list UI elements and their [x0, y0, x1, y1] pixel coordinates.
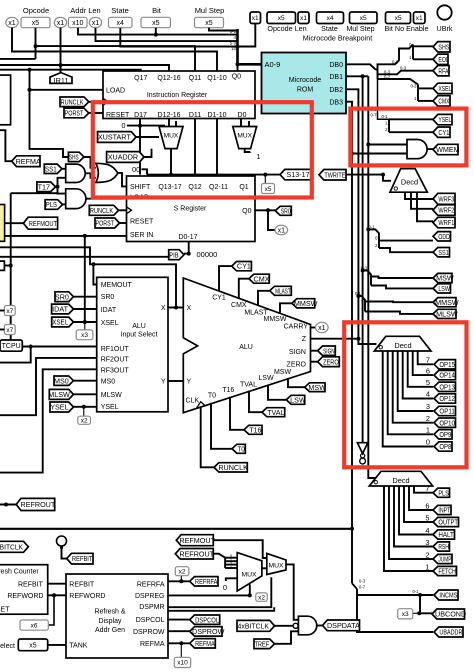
width label x6: [20, 620, 48, 630]
svg-text:SHIFT: SHIFT: [130, 184, 151, 191]
svg-text:Q1: Q1: [239, 184, 248, 191]
junction X wire: [174, 306, 178, 310]
splitter XSEL/CMX spine: [417, 85, 419, 101]
tag FETCH: [433, 566, 457, 575]
svg-text:x7: x7: [6, 308, 13, 315]
wire Decd2 out 2 to OP10: [393, 351, 433, 423]
svg-text:0-3: 0-3: [400, 66, 407, 71]
svg-text:INCMS: INCMS: [439, 591, 457, 600]
wire MUX2 out: [286, 564, 298, 619]
wire x5 Opcode bus: [36, 28, 196, 71]
leader x2 label: [83, 407, 85, 416]
svg-text:State: State: [111, 6, 129, 15]
wire const00 to bus: [142, 169, 148, 174]
svg-text:0-7: 0-7: [359, 585, 366, 590]
svg-text:ROM: ROM: [297, 87, 314, 94]
wire CMX to ALU: [239, 279, 249, 299]
svg-text:Q13-17: Q13-17: [158, 184, 181, 191]
svg-text:x5: x5: [278, 15, 285, 22]
wire D17 down: [139, 119, 141, 175]
svg-text:D0: D0: [238, 112, 247, 119]
pin x1 (No Enable bp): [414, 12, 426, 24]
svg-text:Mul Step: Mul Step: [346, 24, 374, 33]
junction x3 UBCOND: [417, 611, 421, 615]
wire MLSW in: [74, 393, 97, 395]
mux XU2: [233, 127, 257, 149]
svg-text:4xBITCLK: 4xBITCLK: [0, 542, 23, 551]
svg-text:x1: x1: [92, 20, 100, 27]
svg-text:A0-9: A0-9: [265, 60, 281, 69]
input pin x1 (Opcode): [6, 17, 18, 27]
instruction register box: [103, 71, 255, 119]
svg-text:RF2OUT: RF2OUT: [101, 357, 130, 364]
svg-text:S Register: S Register: [174, 206, 207, 213]
tag RUNCLK (SREG): [89, 205, 118, 215]
wire MUX2 extra input: [248, 121, 250, 127]
wire bundle to INCMS splitter: [352, 583, 357, 589]
svg-text:REFRFA: REFRFA: [137, 581, 165, 588]
wire to MSW: [371, 277, 433, 279]
wire DB0: [346, 64, 376, 69]
svg-text:Q12-16: Q12-16: [157, 75, 180, 82]
svg-text:YSEL: YSEL: [101, 404, 119, 411]
wire DB0 split up: [376, 45, 414, 70]
wire IDAT in: [74, 308, 97, 310]
wire Q0 out: [255, 209, 275, 211]
svg-text:Decd: Decd: [392, 476, 409, 485]
wire x1 Opcode long bus: [12, 28, 217, 72]
svg-text:4: 4: [426, 390, 430, 399]
wire sp stub4: [225, 567, 237, 569]
svg-text:x1: x1: [57, 20, 65, 27]
svg-text:T17: T17: [38, 182, 50, 191]
svg-text:0-1: 0-1: [381, 114, 388, 119]
wire MMSW to ALU: [280, 303, 292, 313]
wire Decd3 out 6 to INPT: [409, 486, 433, 510]
wire sp stub1: [225, 557, 237, 559]
tag WMEM: [433, 144, 460, 154]
tag REFBIT: [67, 553, 93, 564]
wire CLK tap: [201, 407, 214, 468]
leader x5 label: [264, 175, 266, 184]
svg-text:x1: x1: [8, 20, 16, 27]
tag RFA: [433, 66, 449, 76]
junction bus C on DB1: [361, 74, 365, 78]
wire D11 down: [194, 119, 196, 175]
wire MSW tap: [288, 378, 305, 387]
svg-text:x5: x5: [29, 642, 37, 649]
svg-text:RUNCLK: RUNCLK: [90, 206, 113, 215]
wire RF3OUT: [0, 369, 97, 472]
mux display 1: [237, 553, 262, 591]
svg-text:x2: x2: [258, 594, 265, 601]
wire x5 lower stub: [35, 46, 37, 59]
svg-text:ZERO: ZERO: [287, 362, 307, 369]
wire PORST to IR reset: [89, 112, 103, 114]
input pin x5 (Opcode): [21, 17, 50, 27]
wire DSPREG to MUX1 sel: [249, 584, 251, 595]
svg-text:DB0: DB0: [329, 62, 343, 69]
wire TWRITE to Decd1: [346, 174, 384, 176]
tag ODD: [433, 232, 451, 241]
input pin x1 (Len): [89, 17, 101, 27]
tag DSPCOL: [190, 615, 220, 624]
svg-text:HALT: HALT: [438, 530, 454, 539]
wire Decd2 out 0 to OP8: [383, 351, 433, 447]
wire DSPCOL out: [168, 619, 190, 621]
svg-text:x5: x5: [32, 20, 40, 27]
svg-text:DSPCOL: DSPCOL: [136, 617, 165, 624]
svg-text:UBCOND: UBCOND: [435, 610, 466, 619]
splitter INCMS spine: [357, 589, 433, 632]
wire TVAL tap: [249, 391, 262, 413]
svg-text:x5: x5: [205, 20, 213, 27]
svg-text:2: 2: [425, 551, 429, 560]
wire RUNCLK to SREG clk: [119, 209, 127, 211]
svg-text:SHS: SHS: [69, 153, 79, 162]
tag OP11: [434, 406, 456, 415]
wire MS0 in: [74, 380, 97, 382]
wire DB1: [346, 75, 368, 77]
width label x3: [76, 330, 93, 340]
svg-text:EOI: EOI: [438, 55, 447, 64]
svg-text:1: 1: [426, 426, 430, 435]
wire Decd3 out 2 to JUMP: [389, 486, 433, 559]
wire TCPU to RF1OUT: [22, 346, 96, 348]
wire to XSEL splitter: [378, 79, 419, 85]
svg-text:CMX: CMX: [231, 302, 247, 309]
svg-text:MEMOUT: MEMOUT: [101, 282, 133, 289]
junction const0/D17: [138, 124, 142, 128]
svg-text:Decd: Decd: [394, 341, 411, 350]
svg-text:DSPCOL: DSPCOL: [195, 615, 219, 624]
svg-text:X: X: [187, 305, 192, 312]
tag CMX: [433, 96, 450, 106]
tag UBCOND: [432, 609, 466, 619]
tag OP10: [434, 418, 456, 427]
svg-text:x10: x10: [177, 660, 188, 667]
tag YSEL (AIS): [50, 402, 74, 412]
svg-text:OP10: OP10: [439, 418, 455, 427]
junction Q0 split: [266, 208, 270, 212]
wire Z out: [311, 338, 359, 340]
wire REFWORD to gen: [48, 594, 66, 596]
svg-text:OP12: OP12: [439, 394, 455, 403]
inverter (bundle D): [357, 443, 367, 464]
wire MUX1 to MUX2: [262, 567, 267, 569]
svg-text:x10: x10: [72, 20, 83, 27]
svg-text:REFMA: REFMA: [140, 641, 165, 648]
svg-text:YSEL: YSEL: [438, 115, 451, 124]
junction REFRFA x2: [179, 579, 183, 583]
tag XUADDR: [107, 152, 144, 163]
svg-text:x5: x5: [395, 15, 402, 22]
tag REFMA (gen): [190, 639, 216, 648]
svg-text:SS1: SS1: [438, 248, 449, 257]
wire x1 Addr to IR11: [60, 28, 62, 73]
svg-text:X: X: [161, 305, 166, 312]
wire REFMA left: [0, 130, 12, 161]
wire XUSTART to MUX1: [136, 136, 159, 138]
svg-text:XSEL: XSEL: [101, 320, 119, 327]
wire OR out to SHIFT: [118, 173, 127, 187]
junction XSEL x3: [83, 320, 87, 324]
svg-text:RESET: RESET: [106, 112, 130, 119]
wire Decd1 to WRF1: [417, 192, 433, 221]
svg-text:CY1: CY1: [438, 128, 449, 137]
wire DSPMR out2: [168, 607, 274, 611]
tag WRF3: [433, 193, 455, 204]
svg-text:Addr Gen: Addr Gen: [95, 627, 125, 634]
tag S13-17: [280, 169, 311, 179]
wire Q0 to x1 pin: [268, 210, 275, 230]
svg-text:DSPREG: DSPREG: [135, 593, 165, 600]
svg-text:D11: D11: [189, 112, 201, 119]
svg-text:LSW: LSW: [258, 375, 274, 382]
wire Decd3 out 3 to RSH: [394, 486, 433, 547]
wire Y into ALU: [168, 380, 183, 382]
wire to CMX: [418, 100, 433, 102]
bus left y69.7 to Q17: [0, 70, 141, 71]
tag WRF1: [433, 217, 455, 228]
junction x5 stub: [34, 44, 38, 48]
output pin x1 (CARRY): [316, 322, 329, 332]
svg-text:x1: x1: [300, 15, 307, 22]
wire DSPMR out: [168, 577, 271, 607]
svg-text:5: 5: [425, 514, 429, 523]
wire T0 tap: [211, 403, 232, 449]
wire AND-wmem in1: [368, 144, 407, 146]
bus left y58.9: [0, 58, 36, 60]
svg-text:7: 7: [425, 484, 429, 493]
svg-text:5: 5: [426, 378, 430, 387]
wire REFMOUT to MUX2: [213, 540, 266, 558]
svg-text:0-1: 0-1: [230, 29, 237, 34]
svg-text:x3: x3: [402, 611, 409, 618]
ALU input select box: [97, 277, 168, 412]
wire LOAD from bus: [30, 89, 104, 91]
wire Decd3 out 1 to FETCH: [384, 486, 433, 571]
tag LSW (ALU): [286, 395, 306, 404]
tag OUTPT: [433, 517, 459, 526]
svg-text:x3: x3: [81, 332, 88, 339]
wire gate to DSPDATA: [317, 625, 323, 627]
wire to SHS: [413, 45, 433, 47]
pin x5 (Mul Step bp): [350, 12, 378, 24]
tag T17: [37, 182, 56, 192]
wire to EOI: [413, 58, 433, 60]
wire SS1 to AND1: [62, 168, 66, 170]
svg-text:TCPU: TCPU: [2, 343, 21, 350]
bus left y65 to Q12-16: [0, 65, 169, 71]
refresh counter box: [0, 565, 48, 615]
wire Decd3 out 4 to HALT: [399, 486, 433, 535]
junction DSPREG select: [248, 593, 252, 597]
svg-text:D0-17: D0-17: [178, 234, 197, 241]
svg-text:DSPDATA: DSPDATA: [327, 621, 360, 630]
svg-text:00000: 00000: [197, 250, 218, 259]
svg-text:ALU: ALU: [239, 344, 253, 351]
svg-text:ALU: ALU: [132, 323, 146, 330]
wire DB3 + vertical bus A: [346, 102, 352, 584]
wire Decd2 out 4 to OP12: [403, 351, 433, 399]
pin stem dot: [60, 546, 63, 549]
pin x5 (Opcode bp): [267, 12, 296, 24]
svg-text:0-1: 0-1: [392, 59, 399, 64]
and gate G1: [66, 164, 86, 182]
junction wmem in1: [366, 143, 370, 147]
wire Bit to bus: [155, 28, 157, 35]
tag RUNCLK (ALU): [214, 463, 248, 472]
pin x5 (Bit bp): [386, 12, 411, 24]
junction SERIN branch: [83, 234, 87, 238]
wire Decd2 out 6 to OP14: [413, 351, 433, 375]
svg-text:MLSW: MLSW: [48, 390, 70, 399]
svg-text:Mul Step: Mul Step: [195, 6, 225, 15]
svg-text:Addr Len: Addr Len: [70, 6, 100, 15]
leader x6: [48, 595, 54, 625]
svg-text:x5: x5: [265, 186, 272, 193]
svg-text:Bit: Bit: [152, 6, 162, 15]
svg-text:0-1: 0-1: [355, 291, 362, 296]
wire Decd2 out 3 to OP11: [398, 351, 433, 411]
svg-text:MUX: MUX: [268, 563, 284, 570]
wire TREF to gate: [275, 631, 299, 644]
svg-text:YSEL: YSEL: [50, 403, 68, 412]
wire ZERO out: [311, 361, 318, 363]
svg-text:D12-16: D12-16: [158, 112, 181, 119]
wire MUX1 extra input: [175, 121, 177, 127]
splitter YSEL/CY1 spine: [388, 119, 390, 132]
svg-text:RF3OUT: RF3OUT: [101, 368, 130, 375]
wire Decd2 out 5 to OP13: [408, 351, 433, 387]
width label x2: [78, 416, 91, 424]
wire x5 to TANK: [48, 644, 66, 646]
svg-text:5-9: 5-9: [230, 41, 237, 46]
input pin x5 (Bit): [141, 17, 171, 27]
svg-text:MUX: MUX: [164, 133, 179, 140]
svg-text:T0: T0: [237, 444, 244, 453]
svg-text:T16: T16: [249, 425, 261, 434]
tag MS0: [54, 376, 74, 385]
tag PORST (IR): [64, 108, 89, 118]
wire X into ALU: [168, 307, 183, 309]
wire x7b stub: [0, 329, 4, 331]
and gate G2: [66, 189, 86, 209]
svg-text:6: 6: [426, 366, 430, 375]
refresh display addr gen box: [66, 574, 168, 658]
svg-text:Microcode Breakpoint: Microcode Breakpoint: [303, 33, 373, 42]
tag REFRFA: [190, 577, 218, 586]
junction REFMA x10: [179, 641, 183, 645]
svg-text:RF1OUT: RF1OUT: [101, 346, 130, 353]
svg-text:DSPMR: DSPMR: [139, 604, 164, 611]
svg-text:x1: x1: [416, 15, 423, 22]
wire to CY1: [389, 131, 433, 133]
junction RF1 branch: [29, 345, 33, 349]
tag CY1: [433, 127, 450, 137]
svg-text:MMSW: MMSW: [264, 316, 287, 323]
tag MSW (ALU): [305, 383, 326, 392]
wire to LSW: [371, 286, 433, 289]
wire x10 Addr to bus: [78, 28, 238, 35]
leader x3 (UBCOND): [413, 612, 420, 614]
wire MUX1 out to bus: [170, 149, 172, 175]
svg-text:Microcode: Microcode: [289, 77, 321, 84]
wire DSPROW out: [168, 630, 190, 632]
svg-text:SS1: SS1: [45, 164, 57, 173]
wire T17 to AND2: [58, 187, 66, 194]
wire to ODD: [379, 240, 433, 242]
tag SR0 (from Q0): [275, 206, 291, 215]
wire CY1 to ALU: [219, 266, 232, 291]
svg-text:WRF1: WRF1: [438, 218, 454, 227]
svg-text:TVAL: TVAL: [240, 381, 257, 388]
junction ODD feed: [366, 227, 370, 231]
splitter SHS/EOI spine: [412, 45, 414, 60]
svg-text:DSPROW: DSPROW: [192, 627, 225, 636]
wire yellow to REFMOUT: [5, 222, 24, 224]
svg-text:RUNCLK: RUNCLK: [218, 463, 248, 472]
junction bus/x5label: [263, 173, 267, 177]
wire DB2 + vertical bus B: [346, 89, 377, 344]
DB0 splitter spine: [376, 70, 378, 80]
svg-text:Q1-10: Q1-10: [207, 75, 227, 82]
wire MEMOUT in: [93, 264, 96, 284]
svg-text:RESET: RESET: [0, 607, 10, 614]
wire REFROUT to splitter: [213, 554, 225, 568]
svg-text:ZERO: ZERO: [323, 357, 339, 366]
svg-text:0-7: 0-7: [370, 113, 377, 118]
svg-text:0-3: 0-3: [410, 84, 417, 89]
wire ODD/SS1 feed: [368, 229, 379, 248]
svg-text:x1: x1: [252, 15, 259, 22]
wire to SS1: [379, 248, 433, 252]
tag MMSW: [433, 298, 459, 307]
tag T16: [244, 425, 262, 434]
tag SIGN: [318, 346, 336, 355]
svg-text:DSPROW: DSPROW: [133, 629, 165, 636]
wire branch down to SHS: [30, 70, 69, 157]
svg-text:S13-17: S13-17: [287, 170, 310, 179]
svg-text:6: 6: [425, 502, 429, 511]
wire T17 branch: [56, 178, 66, 187]
junction REFROUT stub: [4, 503, 8, 507]
width label x2 (REFRFA): [175, 567, 189, 576]
wire REFMA out: [168, 642, 190, 644]
svg-text:Q0: Q0: [232, 73, 241, 80]
wire AND-wmem in2: [352, 153, 407, 155]
svg-text:Q11: Q11: [189, 75, 202, 82]
junction TWRITE/Decd1: [381, 173, 385, 177]
input pin x4 (State): [109, 17, 133, 27]
svg-text:RFA: RFA: [438, 66, 448, 75]
width label x3 (UBCOND): [398, 609, 413, 619]
vertical bus C (to inverter): [362, 76, 364, 442]
svg-text:INPT: INPT: [438, 506, 450, 515]
tag TWRITE: [319, 170, 346, 181]
svg-text:State: State: [321, 24, 338, 33]
mux display 2: [267, 553, 286, 574]
wire MSW pair feed: [363, 271, 371, 286]
wire REFBIT to gen: [48, 583, 66, 585]
svg-text:PORST: PORST: [96, 219, 115, 228]
and gate DSPDATA: [293, 616, 317, 635]
or gate G3: [96, 163, 118, 182]
svg-text:PIB: PIB: [169, 250, 178, 259]
wire AND2 out to LOAD: [86, 197, 127, 199]
svg-text:Opcode: Opcode: [23, 6, 49, 15]
